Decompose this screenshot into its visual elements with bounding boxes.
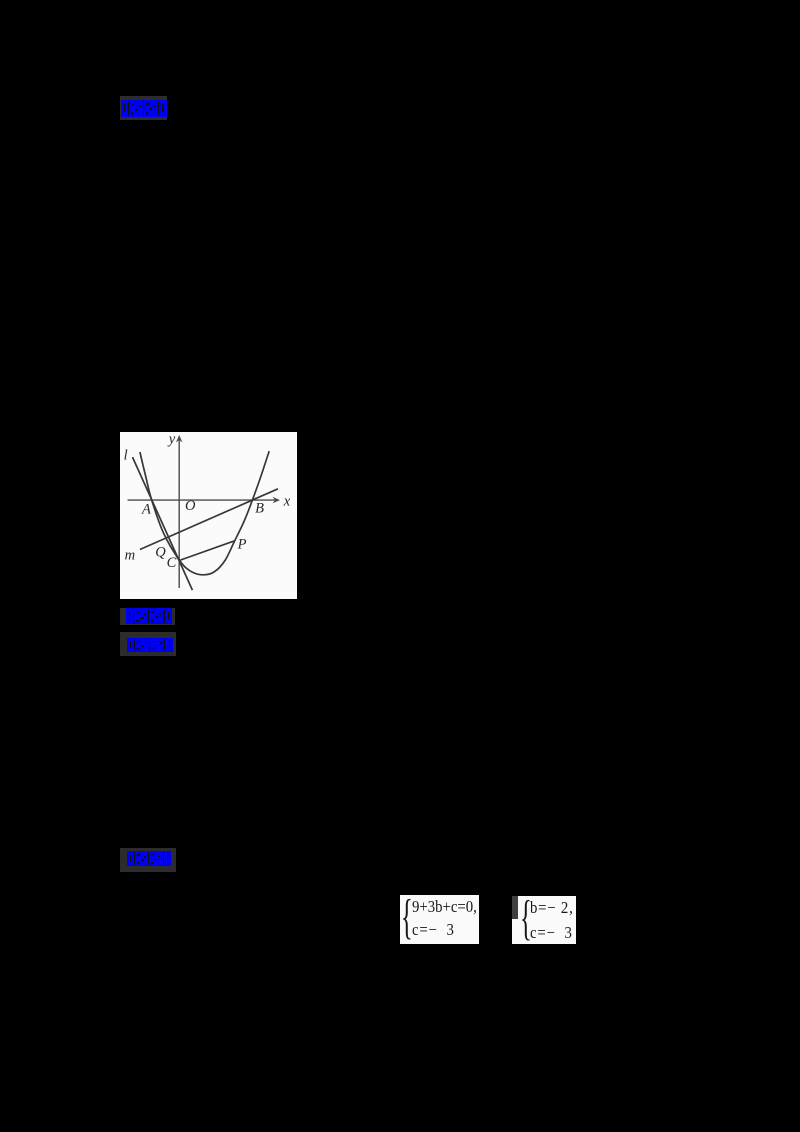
equation image 2: {b=-2, c=-3 <box>512 896 576 944</box>
y-axis <box>178 439 180 588</box>
line m (through Q and B) <box>139 489 277 550</box>
svg-text:l: l <box>123 447 127 463</box>
line l (steep, through A and C) <box>132 457 192 590</box>
svg-text:y: y <box>166 432 175 448</box>
highlighted label box 2 <box>120 608 176 625</box>
y-axis arrowhead <box>175 435 182 443</box>
svg-text:Q: Q <box>155 544 166 560</box>
dark notch artifact on left edge <box>512 896 519 919</box>
svg-text:P: P <box>236 536 246 552</box>
svg-text:x: x <box>282 493 290 509</box>
svg-text:A: A <box>140 501 150 517</box>
graph image: parabola with lines l, m, segment CP <box>120 432 298 599</box>
parabola <box>139 451 268 575</box>
x-axis arrowhead <box>272 497 280 504</box>
equation image 1: {9+3b+c=0, c=-3 <box>400 895 479 944</box>
highlighted label box 1 (top, blue CJK label on dark grey highlight) <box>120 96 167 121</box>
segment CP <box>179 541 234 561</box>
highlighted label box 3 <box>120 632 176 656</box>
svg-text:m: m <box>124 547 134 563</box>
svg-text:B: B <box>255 500 264 516</box>
labels <box>123 431 290 571</box>
svg-text:O: O <box>185 498 196 514</box>
highlighted label box 4 <box>120 848 176 872</box>
svg-text:C: C <box>166 555 176 571</box>
x-axis <box>127 499 276 501</box>
